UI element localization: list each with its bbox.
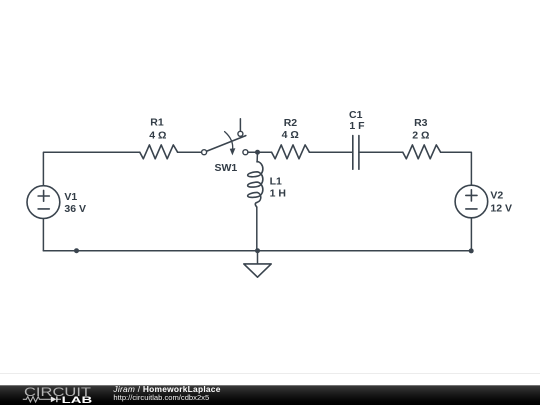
svg-text:R2: R2 [284,117,298,129]
ground [244,264,271,277]
switch SW1 motion arrow [225,132,233,150]
footer separator rule [0,373,540,375]
node junction dot bottom center [255,248,260,253]
wire R2 to C1 [309,151,352,153]
wire node to L1 [256,152,258,162]
svg-text:SW1: SW1 [215,162,238,174]
resistor R1 [140,145,178,159]
voltage source V1 [27,186,60,219]
node junction dot bottom left [74,248,79,253]
wire bottom rail [43,250,471,252]
node junction dot bottom right [469,248,474,253]
switch SW1 blade [206,136,246,152]
wire V2 to bottom [470,218,472,251]
resistor R2 [272,145,310,159]
switch SW1 right throw terminal [243,150,248,155]
capacitor C1 right plate [358,136,360,170]
resistor R3 [403,145,441,159]
logo diode glyph [51,396,58,402]
svg-text:1 H: 1 H [270,187,286,199]
svg-text:LAB: LAB [62,395,92,405]
svg-text:36 V: 36 V [64,203,86,215]
svg-text:R1: R1 [150,117,164,129]
svg-text:R3: R3 [414,117,428,129]
wire SW1 to node [248,151,272,153]
switch SW1 upper throw terminal [238,131,243,136]
ground stub [257,251,259,264]
svg-text:1 F: 1 F [349,120,365,132]
logo resistor glyph [23,397,51,402]
wire top left [43,152,139,186]
switch SW1 upper stub wire [239,119,241,131]
footer bar [0,385,540,405]
wire C1 to R3 [359,151,403,153]
node junction dot top [255,150,260,155]
voltage source V2 [455,185,488,218]
capacitor C1 left plate [352,136,354,170]
svg-text:http://circuitlab.com/cdbx2x5: http://circuitlab.com/cdbx2x5 [113,393,209,402]
svg-text:L1: L1 [270,176,282,188]
wire L1 to bottom [256,207,258,251]
svg-text:V1: V1 [64,191,77,203]
wire R1 to SW1 [178,151,202,153]
switch SW1 common terminal [202,150,207,155]
wire V1 to bottom [42,219,44,251]
svg-text:12 V: 12 V [490,202,512,214]
inductor L1 [248,162,263,208]
svg-text:4 Ω: 4 Ω [282,129,299,141]
svg-text:4 Ω: 4 Ω [149,129,166,141]
wire R3 to V2 [441,152,472,185]
svg-text:2 Ω: 2 Ω [412,129,429,141]
svg-text:V2: V2 [490,189,503,201]
